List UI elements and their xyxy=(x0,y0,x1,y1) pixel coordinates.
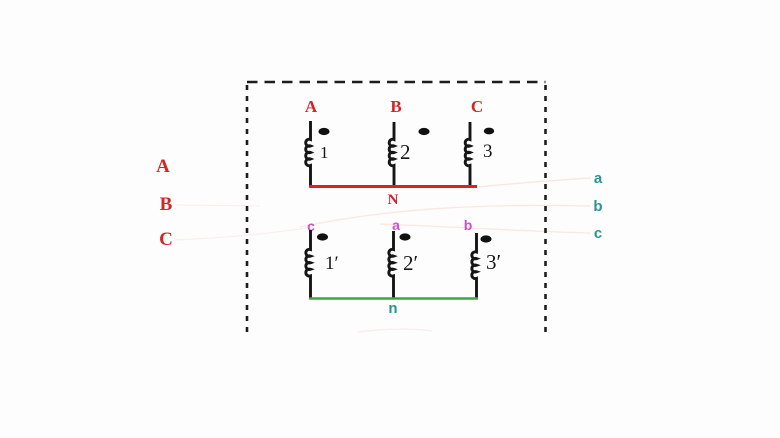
svg-text:n: n xyxy=(388,300,397,317)
neutral bus n (wire) xyxy=(309,297,478,300)
annotation curve a (faint) xyxy=(476,178,591,187)
svg-text:b: b xyxy=(464,217,473,233)
polarity dot winding 2 xyxy=(418,128,429,135)
polarity dot winding 1 xyxy=(318,128,329,135)
svg-text:2: 2 xyxy=(400,140,411,164)
svg-text:A: A xyxy=(305,97,318,116)
annotation line from C (faint) xyxy=(173,228,306,240)
polarity dot winding 3' xyxy=(480,235,491,242)
winding 1' (secondary) xyxy=(306,230,311,299)
svg-text:2′: 2′ xyxy=(403,251,418,275)
svg-text:B: B xyxy=(390,97,401,116)
svg-text:1′: 1′ xyxy=(325,253,339,274)
transformer enclosure (dashed box, open bottom) xyxy=(247,82,546,335)
winding 1 (phase A primary) xyxy=(306,121,311,187)
svg-text:a: a xyxy=(594,170,603,187)
svg-text:b: b xyxy=(593,198,602,215)
polarity dot winding 2' xyxy=(399,233,410,240)
polarity dot winding 1' xyxy=(317,233,328,240)
annotation line from B (faint) xyxy=(176,205,260,206)
neutral bus N (wire) xyxy=(309,185,477,188)
polarity dot winding 3 xyxy=(484,128,494,135)
svg-text:N: N xyxy=(388,192,399,208)
annotation curve b (faint) xyxy=(300,205,590,227)
annotation smudge bottom (faint) xyxy=(358,329,432,332)
annotation curve c (faint) xyxy=(380,224,590,233)
svg-text:a: a xyxy=(392,217,400,233)
svg-text:C: C xyxy=(159,229,173,250)
winding 2' (secondary) xyxy=(389,231,394,299)
svg-text:A: A xyxy=(156,156,170,177)
svg-text:3′: 3′ xyxy=(486,250,501,274)
winding 2 (phase B primary) xyxy=(389,122,394,187)
winding 3' (secondary) xyxy=(472,233,477,299)
svg-text:c: c xyxy=(594,225,602,242)
svg-text:C: C xyxy=(471,97,483,116)
svg-text:1: 1 xyxy=(320,143,329,162)
svg-text:B: B xyxy=(160,194,173,215)
svg-text:3: 3 xyxy=(483,141,493,162)
winding 3 (phase C primary) xyxy=(465,122,470,187)
